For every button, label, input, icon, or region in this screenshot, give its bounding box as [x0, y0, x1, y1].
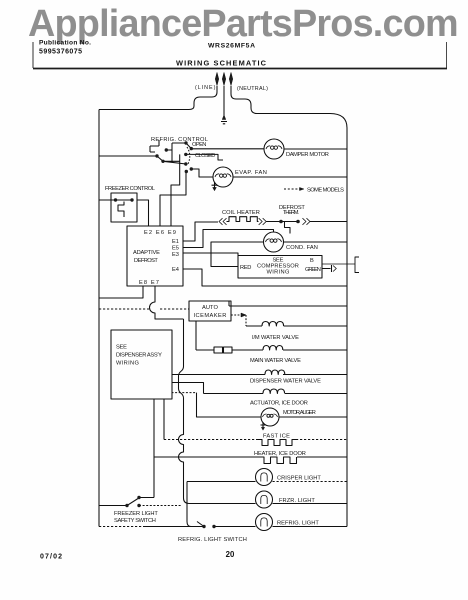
icemaker bottom wire [195, 321, 197, 350]
svg-text:THERM.: THERM. [283, 210, 299, 216]
svg-text:WRS26MF5A: WRS26MF5A [208, 43, 255, 50]
mid bus wire with hops [179, 319, 190, 504]
wire damper to bus [284, 148, 347, 150]
svg-text:MAIN WATER VALVE: MAIN WATER VALVE [250, 358, 301, 364]
frzr rung [189, 503, 347, 505]
wire therm to bus [310, 221, 347, 223]
svg-text:REFRIG. LIGHT SWITCH: REFRIG. LIGHT SWITCH [178, 537, 247, 543]
auger ground arrow [261, 422, 266, 427]
crisper frzr join wire [187, 482, 203, 527]
wire heater to defrost therm [266, 221, 299, 223]
svg-text:FRZR. LIGHT: FRZR. LIGHT [279, 498, 315, 504]
auto icemaker box [189, 301, 231, 321]
svg-text:SEE: SEE [116, 345, 127, 351]
compressor box [238, 256, 322, 279]
coil heater element [219, 218, 227, 225]
wire E3 to compressor box [183, 253, 238, 256]
wire bus to refrig control [99, 155, 157, 157]
defrost thermostat [285, 222, 291, 234]
damper motor M1 [264, 139, 284, 159]
svg-text:ADAPTIVE: ADAPTIVE [133, 250, 160, 256]
header rule [33, 68, 447, 70]
dispenser water valve coil L3 [265, 370, 285, 375]
freezer control box [111, 193, 137, 222]
svg-text:DISPENSER WATER VALVE: DISPENSER WATER VALVE [250, 378, 321, 384]
main water valve coil L2 [263, 346, 283, 351]
wire E8 to bus [99, 286, 143, 298]
svg-text:I/M WATER VALVE: I/M WATER VALVE [252, 335, 299, 341]
svg-text:ICEMAKER: ICEMAKER [194, 313, 227, 319]
svg-text:FREEZER LIGHT: FREEZER LIGHT [114, 511, 158, 517]
svg-text:COND. FAN: COND. FAN [286, 245, 318, 251]
svg-text:ACTUATOR, ICE DOOR: ACTUATOR, ICE DOOR [250, 400, 308, 406]
svg-text:RED: RED [240, 265, 252, 271]
svg-text:WIRING: WIRING [116, 361, 139, 367]
svg-text:FAST ICE: FAST ICE [263, 434, 290, 440]
plug earth symbol [222, 115, 226, 120]
wire open contact to damper motor [172, 143, 264, 149]
bottom bus dashed [99, 526, 144, 528]
motor auger M4 [261, 408, 279, 426]
fast ice rung [164, 439, 258, 441]
svg-text:20: 20 [226, 550, 235, 559]
svg-text:WIRING SCHEMATIC: WIRING SCHEMATIC [176, 59, 267, 68]
wire green connector [323, 265, 332, 272]
svg-text:5995376075: 5995376075 [39, 49, 82, 56]
freezer safety switch wires [99, 498, 154, 506]
svg-text:07/02: 07/02 [40, 554, 62, 561]
dashed icemaker feed [99, 308, 189, 310]
right bus wire [346, 128, 348, 527]
evap fan ground arrow [212, 182, 218, 188]
svg-text:E3: E3 [172, 252, 179, 258]
svg-text:AUTO: AUTO [202, 305, 218, 311]
svg-text:DAMPER MOTOR: DAMPER MOTOR [286, 152, 329, 158]
wire E6 riser to switch [160, 173, 186, 226]
dispenser valve rung [172, 374, 348, 376]
svg-text:EVAP. FAN: EVAP. FAN [235, 170, 267, 176]
svg-text:(NEUTRAL): (NEUTRAL) [237, 86, 268, 92]
svg-text:E4: E4 [172, 267, 179, 273]
wire E5 to cond fan top [183, 230, 274, 248]
main valve rung with connector [196, 349, 347, 351]
wire E7 riser with hop [150, 286, 184, 319]
header right tick [446, 42, 448, 68]
icemaker dashed stub arrow [231, 314, 241, 316]
svg-text:(LINE): (LINE) [195, 85, 216, 91]
refrig control travel arc [187, 147, 190, 164]
svg-text:E5: E5 [172, 246, 179, 252]
refrig control capillary [150, 140, 159, 152]
plug prong line [99, 86, 217, 110]
svg-text:WIRING: WIRING [267, 270, 290, 276]
plug prong neutral [231, 86, 347, 128]
svg-text:GREEN: GREEN [305, 267, 321, 273]
crisper lamp DS1 [256, 469, 273, 486]
svg-text:SAFETY SWITCH: SAFETY SWITCH [114, 518, 156, 524]
wire evap fan to bus [233, 176, 347, 178]
plug arrowheads [215, 73, 232, 86]
refrig light rung [144, 526, 347, 528]
heater tee [154, 456, 347, 458]
dispenser assy box [111, 330, 172, 399]
evap fan motor M2 [213, 167, 233, 187]
header left tick [32, 42, 34, 68]
freezer control dots [114, 198, 134, 201]
wire E4 to bus [183, 269, 347, 286]
wire B to bracket [323, 263, 356, 265]
heater ice door resistor R2 [261, 457, 297, 464]
svg-text:E8 E7: E8 E7 [139, 280, 159, 286]
svg-text:E1: E1 [172, 239, 179, 245]
svg-text:B: B [310, 258, 314, 264]
frzr lamp DS2 [256, 491, 273, 508]
svg-text:Publication No.: Publication No. [39, 40, 91, 47]
dispenser box bottom wires [154, 399, 164, 498]
wire E1 to coil heater [183, 222, 218, 241]
svg-text:MOTOR, AUGER: MOTOR, AUGER [283, 410, 316, 416]
wire auger to bus [279, 416, 347, 418]
crisper rung [187, 481, 256, 483]
svg-text:CRISPER LIGHT: CRISPER LIGHT [277, 476, 321, 482]
svg-text:E2 E6 E9: E2 E6 E9 [144, 230, 176, 236]
fast ice resistor R1 [258, 440, 296, 446]
adaptive defrost box U1 [127, 226, 183, 286]
IM water valve coil L1 [246, 322, 347, 327]
svg-text:FREEZER CONTROL: FREEZER CONTROL [105, 186, 155, 192]
icemaker rung to bus [229, 301, 347, 306]
svg-text:CLOSED: CLOSED [195, 153, 216, 159]
actuator rung [172, 383, 348, 394]
wire switch to evap fan [191, 169, 213, 177]
svg-text:HEATER, ICE DOOR: HEATER, ICE DOOR [254, 451, 306, 457]
switch dots [155, 141, 193, 173]
plug ground prong [223, 86, 225, 116]
svg-text:COIL HEATER: COIL HEATER [222, 210, 260, 216]
refrig lamp DS3 [256, 514, 273, 531]
wire cond fan to red [211, 242, 264, 267]
connector symbol [214, 347, 223, 353]
svg-text:OPEN: OPEN [192, 142, 207, 148]
actuator ice door coil L4 [263, 389, 285, 394]
svg-text:DISPENSER ASS'Y: DISPENSER ASS'Y [116, 353, 162, 359]
svg-text:REFRIG. LIGHT: REFRIG. LIGHT [277, 521, 319, 527]
freezer control bellows symbol [118, 202, 124, 218]
watermark AppliancePartsPros.com [28, 3, 468, 46]
left bus wire [98, 110, 100, 527]
refrig light switch blade [197, 522, 204, 527]
dashed dispenser-auger wire [172, 392, 197, 394]
wire E9 riser to switch [171, 154, 180, 226]
some models dashed arrow [284, 188, 300, 190]
refrig control switch blades [157, 143, 186, 164]
svg-text:SOME MODELS: SOME MODELS [307, 188, 344, 194]
svg-text:DEFROST: DEFROST [134, 258, 158, 264]
wire cond fan to bus [284, 241, 348, 243]
wire closed contact run [186, 154, 223, 160]
wire through freezer control [99, 200, 149, 226]
cond fan motor M3 [264, 232, 284, 252]
right margin bracket [355, 257, 359, 273]
